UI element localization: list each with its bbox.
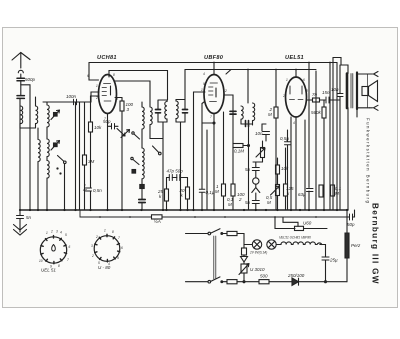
svg-text:M: M xyxy=(228,202,232,207)
svg-text:2: 2 xyxy=(91,254,94,258)
svg-text:4: 4 xyxy=(108,262,110,266)
svg-text:2: 2 xyxy=(95,235,98,239)
svg-text:0,1M: 0,1M xyxy=(234,149,244,154)
svg-text:M: M xyxy=(267,200,271,205)
svg-text:50p: 50p xyxy=(347,222,355,227)
svg-text:UBF80: UBF80 xyxy=(204,55,224,61)
svg-text:6: 6 xyxy=(121,246,123,250)
svg-text:3: 3 xyxy=(56,230,58,234)
svg-text:4: 4 xyxy=(293,121,295,125)
svg-text:560k: 560k xyxy=(311,110,322,115)
svg-text:0,5n: 0,5n xyxy=(93,188,102,193)
svg-text:Perz: Perz xyxy=(351,243,361,248)
svg-text:4: 4 xyxy=(60,231,62,235)
svg-text:2: 2 xyxy=(95,96,98,100)
svg-text:6: 6 xyxy=(69,245,71,249)
svg-text:7: 7 xyxy=(67,258,69,262)
svg-text:8: 8 xyxy=(306,89,308,93)
svg-text:1: 1 xyxy=(96,84,98,88)
svg-text:10n: 10n xyxy=(331,87,339,92)
svg-text:5: 5 xyxy=(98,261,100,265)
svg-text:63µ: 63µ xyxy=(298,192,306,197)
svg-text:1: 1 xyxy=(286,78,288,82)
svg-text:100n: 100n xyxy=(66,94,77,99)
svg-text:3M: 3M xyxy=(88,159,95,164)
svg-text:7: 7 xyxy=(104,117,106,121)
svg-text:UEL51 UCH81 UBF80: UEL51 UCH81 UBF80 xyxy=(279,236,311,240)
svg-text:9: 9 xyxy=(203,82,205,86)
svg-text:1: 1 xyxy=(104,229,106,233)
svg-text:M: M xyxy=(335,191,339,196)
svg-text:9: 9 xyxy=(117,256,119,260)
svg-text:6: 6 xyxy=(303,78,305,82)
svg-text:7n: 7n xyxy=(312,92,318,97)
svg-text:3: 3 xyxy=(91,244,93,248)
svg-text:10k: 10k xyxy=(281,166,289,171)
svg-text:5n: 5n xyxy=(26,215,32,220)
svg-text:M: M xyxy=(215,189,219,194)
svg-text:6: 6 xyxy=(87,74,89,78)
svg-text:0,1µ: 0,1µ xyxy=(206,190,215,195)
svg-text:25µ: 25µ xyxy=(329,258,338,263)
svg-text:2: 2 xyxy=(224,89,227,93)
svg-text:5: 5 xyxy=(65,233,67,237)
svg-text:M: M xyxy=(268,112,272,117)
svg-text:2: 2 xyxy=(50,230,53,234)
svg-text:2V 8V(0,1A): 2V 8V(0,1A) xyxy=(249,251,267,255)
svg-text:0,5µ: 0,5µ xyxy=(280,136,289,141)
svg-text:UCH81: UCH81 xyxy=(97,55,117,61)
svg-text:8: 8 xyxy=(58,264,60,268)
svg-text:9: 9 xyxy=(116,97,118,101)
svg-text:UEL 51: UEL 51 xyxy=(41,268,56,273)
svg-text:8: 8 xyxy=(112,230,114,234)
svg-text:500p: 500p xyxy=(25,77,36,82)
svg-text:10n: 10n xyxy=(255,131,263,136)
svg-text:10k: 10k xyxy=(94,125,102,130)
svg-text:½A: ½A xyxy=(154,218,161,224)
svg-text:8: 8 xyxy=(113,73,115,77)
svg-text:U60: U60 xyxy=(303,221,312,226)
svg-text:1: 1 xyxy=(201,88,203,92)
svg-text:Ae: Ae xyxy=(82,188,87,192)
svg-text:5n: 5n xyxy=(245,200,251,205)
svg-text:U 3010: U 3010 xyxy=(250,267,265,272)
svg-text:500: 500 xyxy=(260,274,268,279)
svg-text:7: 7 xyxy=(118,236,120,240)
svg-text:2: 2 xyxy=(282,94,285,98)
svg-text:5n: 5n xyxy=(245,167,251,172)
svg-text:Bernburg III GW: Bernburg III GW xyxy=(371,203,380,285)
svg-text:250/100: 250/100 xyxy=(287,273,305,278)
svg-text:15n: 15n xyxy=(322,90,330,95)
svg-text:Funkwerkstätten Bernburg: Funkwerkstätten Bernburg xyxy=(366,118,371,204)
svg-text:UEL51: UEL51 xyxy=(285,55,304,61)
svg-text:10: 10 xyxy=(39,259,43,263)
svg-text:4: 4 xyxy=(203,72,205,76)
svg-text:9: 9 xyxy=(50,265,52,269)
svg-text:1: 1 xyxy=(46,231,48,235)
svg-text:2: 2 xyxy=(238,197,242,202)
svg-text:47p 50p: 47p 50p xyxy=(167,169,184,174)
svg-text:7: 7 xyxy=(210,115,212,119)
